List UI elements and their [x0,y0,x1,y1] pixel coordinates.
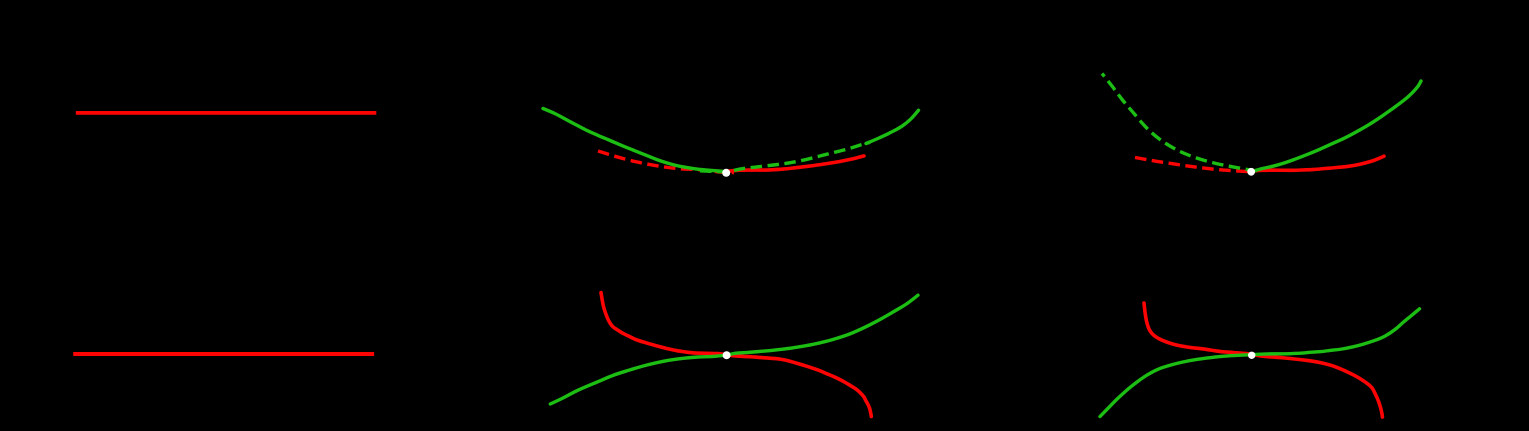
panel (1,2): solid green left branch [543,109,724,172]
panel (1,3): dashed green steep left branch [1102,74,1257,172]
panel (1,3): dashed red curve left of vertex [1135,158,1253,172]
panel (1,2): solid green right branch [866,110,919,143]
panel (2,3): white marked point at crossing [1248,352,1255,359]
panel (2,2): white marked point at crossing [723,351,731,359]
panel (1,1): solid red horizontal line [76,111,377,115]
panel (2,2): solid green S-curve lower-left to upper-right [550,295,918,404]
panel (2,1): solid red horizontal line [73,352,374,356]
panel (2,2): solid red S-curve upper-left to lower-right [601,293,871,417]
panel (1,2): white marked point at vertex [722,169,730,177]
panel (1,2): dashed green curve right of vertex [700,142,870,171]
panel (1,3): solid green right branch [1252,81,1421,172]
panel (1,2): dashed red curve left of vertex [598,151,734,173]
panel (1,2): solid red curve right of vertex [727,156,864,171]
panel (2,3): solid red S-curve upper-left to lower-right [1144,303,1382,417]
panel (2,3): solid green S-curve lower-left to upper-right [1100,309,1420,417]
panel (1,3): white marked point at vertex [1247,168,1255,176]
panel (1,3): solid red curve right of vertex [1252,156,1384,171]
